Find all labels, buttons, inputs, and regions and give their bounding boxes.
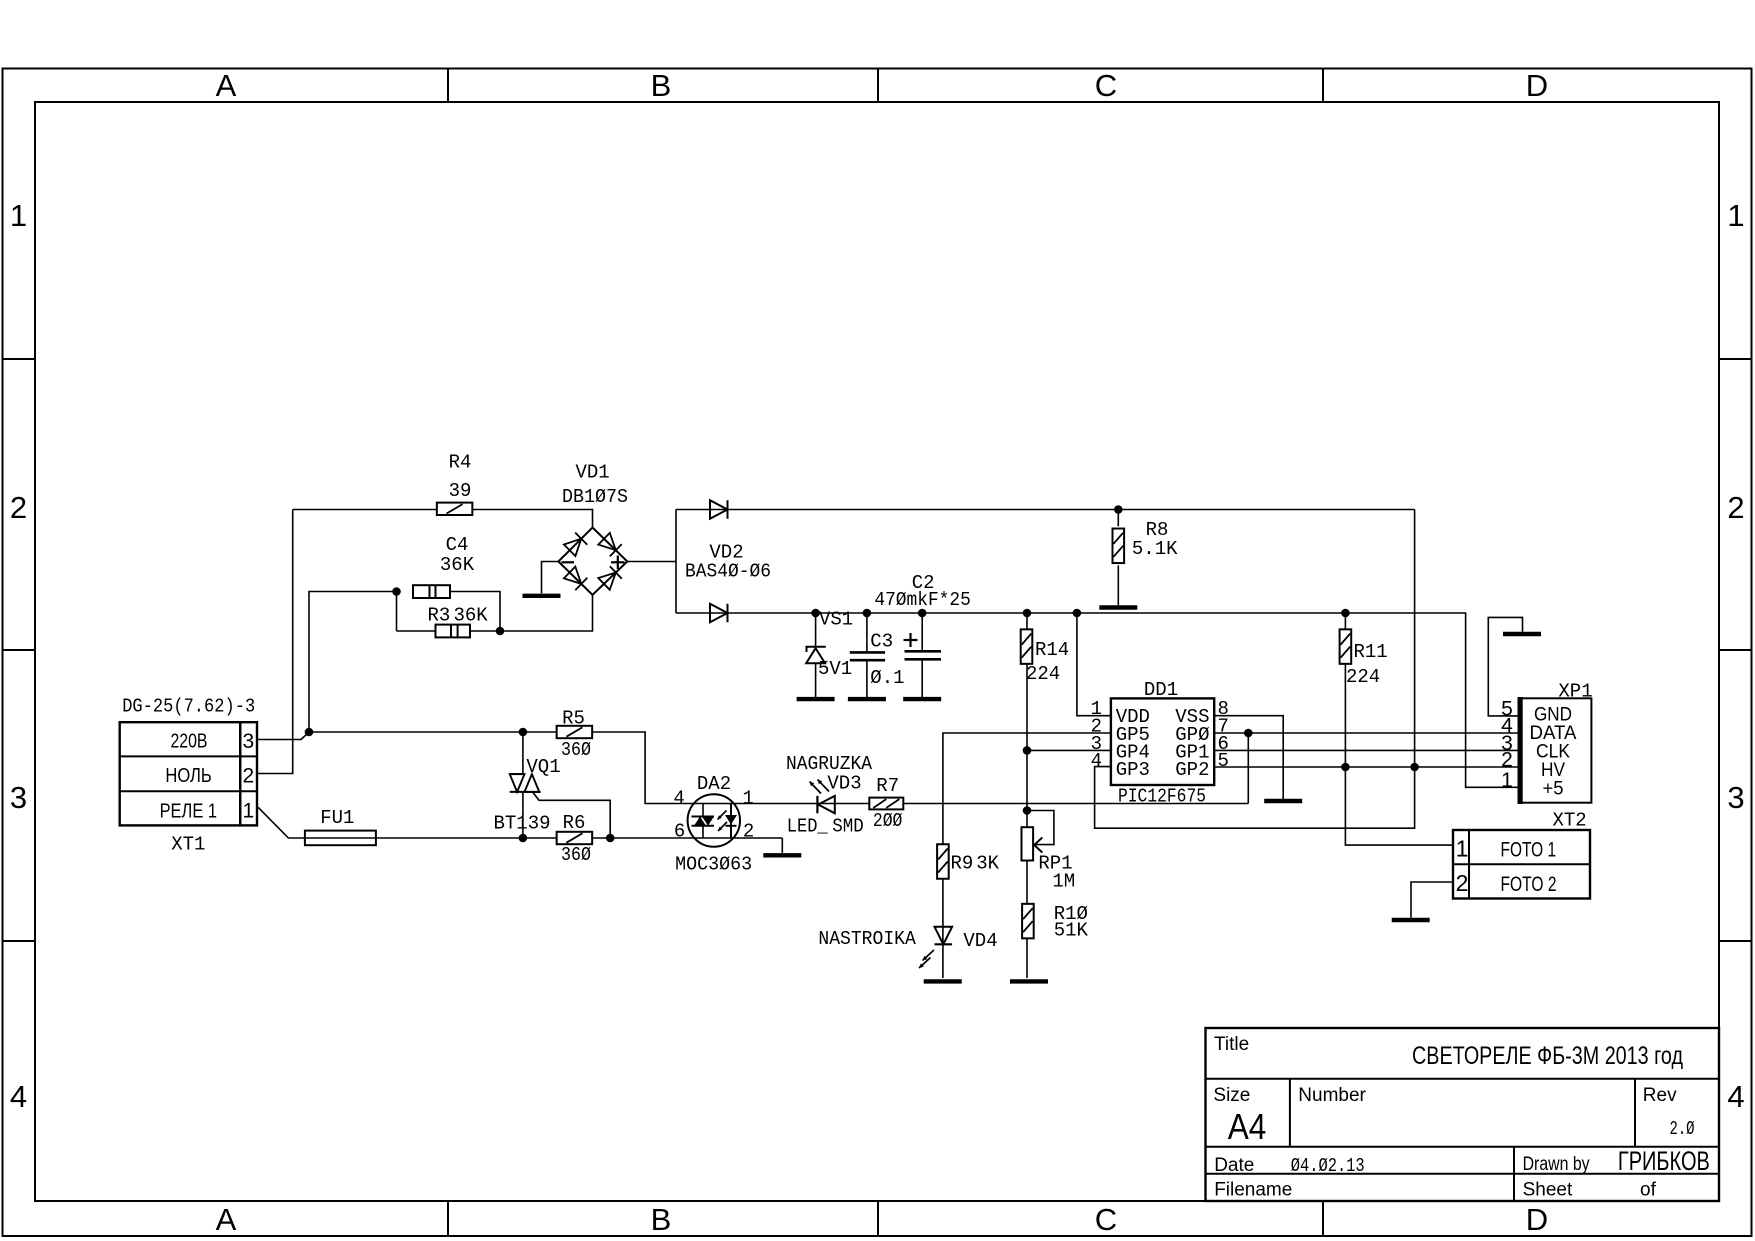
DA2 emitter bracket xyxy=(702,804,704,838)
title block row line under Date xyxy=(1206,1173,1720,1175)
wire bridge plus output to VD2 xyxy=(627,561,676,563)
optocoupler DA2 xyxy=(688,794,740,846)
svg-text:BT139: BT139 xyxy=(494,813,551,835)
svg-text:3: 3 xyxy=(10,780,27,815)
svg-text:PIC12F675: PIC12F675 xyxy=(1118,786,1206,808)
svg-text:1M: 1M xyxy=(1052,871,1075,893)
svg-text:1: 1 xyxy=(1501,769,1513,792)
ground bridge minus xyxy=(523,594,561,598)
svg-text:2: 2 xyxy=(1727,490,1744,525)
svg-text:BAS4Ø-Ø6: BAS4Ø-Ø6 xyxy=(685,561,771,583)
ground XP1 GND xyxy=(1503,632,1541,636)
svg-text:VD4: VD4 xyxy=(963,930,997,952)
potentiometer RP1 xyxy=(1022,827,1034,860)
wire C4 left leg xyxy=(396,592,398,632)
svg-text:R7: R7 xyxy=(876,775,899,797)
svg-text:C4: C4 xyxy=(446,534,469,556)
node junction HV riser/GP2 xyxy=(1410,763,1419,772)
resistor R3 (box symbol) xyxy=(436,625,471,638)
RP1 wiper arrowhead xyxy=(1034,838,1042,853)
resistor R14 xyxy=(1021,629,1033,664)
wire GP4 to R14/RP1 node xyxy=(1027,749,1111,751)
ground DA2 xyxy=(763,853,801,857)
node junction C3 on rail xyxy=(863,609,872,618)
svg-text:R6: R6 xyxy=(563,812,586,834)
svg-text:4: 4 xyxy=(673,788,684,810)
title block Size column divider xyxy=(1289,1079,1291,1147)
ground XT2 xyxy=(1392,918,1430,922)
wire НОЛЬ riser: XT1 pin2 up to R4 xyxy=(258,510,293,774)
node junction GP0/R7 xyxy=(1244,729,1253,738)
wire VS1 to ground xyxy=(815,613,817,697)
VD1 plus sign xyxy=(611,561,625,563)
svg-text:39: 39 xyxy=(449,480,472,502)
ground C3 xyxy=(848,697,886,701)
wire XP1 pin5 GND stub xyxy=(1488,617,1522,716)
DA2 light arrows xyxy=(718,811,727,820)
svg-text:LED_: LED_ xyxy=(787,816,829,838)
svg-text:36Ø: 36Ø xyxy=(561,739,591,761)
svg-text:C3: C3 xyxy=(870,631,893,653)
svg-text:of: of xyxy=(1640,1180,1657,1201)
svg-text:2: 2 xyxy=(243,764,255,787)
svg-text:36Ø: 36Ø xyxy=(561,844,591,866)
connector XP1 xyxy=(1519,698,1592,802)
wire VD2 input riser xyxy=(675,510,677,614)
svg-text:DB1Ø7S: DB1Ø7S xyxy=(562,486,628,508)
wire +5 rail: VD2 lower diode to XP1 +5 xyxy=(676,613,1519,787)
svg-text:A: A xyxy=(216,68,237,103)
diode VD2 lower xyxy=(710,604,728,623)
DA2 emitter triangles xyxy=(694,817,706,826)
svg-text:2: 2 xyxy=(1456,870,1469,896)
wire RP1 wiper bracket xyxy=(1027,811,1054,845)
node junction VDD riser on rail xyxy=(1073,609,1082,618)
wire 220В riser: XT1 pin3 to junction and up to C4/R3 xyxy=(258,592,397,740)
svg-text:R3: R3 xyxy=(428,605,451,627)
svg-text:FOTO 1: FOTO 1 xyxy=(1501,839,1557,862)
resistor R7 xyxy=(869,798,903,810)
svg-text:6: 6 xyxy=(674,821,685,843)
svg-text:НОЛЬ: НОЛЬ xyxy=(165,765,211,787)
svg-text:224: 224 xyxy=(1346,666,1380,688)
svg-text:C: C xyxy=(1095,68,1117,103)
title block outline xyxy=(1206,1028,1720,1201)
svg-text:Sheet: Sheet xyxy=(1523,1180,1573,1201)
svg-text:Rev: Rev xyxy=(1643,1085,1677,1106)
wire VD2 upper output to HV riser xyxy=(676,509,1415,511)
svg-text:3: 3 xyxy=(1727,780,1744,815)
resistor R5 xyxy=(557,726,593,738)
resistor R4 xyxy=(437,503,473,515)
svg-text:Number: Number xyxy=(1298,1085,1366,1106)
svg-text:1: 1 xyxy=(1456,836,1469,862)
svg-text:Title: Title xyxy=(1214,1034,1249,1055)
wire VSS to ground xyxy=(1214,716,1283,799)
svg-text:4: 4 xyxy=(1727,1079,1744,1114)
node junction VQ1 gate/R6 xyxy=(606,834,615,843)
ground VSS xyxy=(1264,799,1302,803)
wire GP2 HV: DD1 pin5 to XP1 pin2 xyxy=(1214,766,1518,768)
svg-text:R14: R14 xyxy=(1035,639,1069,661)
diode VD2 upper xyxy=(710,500,728,519)
svg-text:1: 1 xyxy=(243,800,255,823)
ground R10 xyxy=(1010,979,1048,983)
VD4 light arrows xyxy=(923,950,935,961)
capacitor C4 (box symbol) xyxy=(413,585,450,598)
node junction C4 left xyxy=(392,587,401,596)
VD3 light arrows xyxy=(810,782,822,794)
svg-text:VD1: VD1 xyxy=(575,461,609,483)
svg-text:36K: 36K xyxy=(454,605,489,627)
node junction R11 on rail xyxy=(1341,609,1350,618)
node junction C2 on rail xyxy=(918,609,927,618)
connector XT1 xyxy=(120,722,241,825)
triac VQ1 xyxy=(510,773,525,775)
svg-text:FOTO 2: FOTO 2 xyxy=(1501,873,1557,896)
LED VD4 xyxy=(935,927,953,945)
wire DA2 pin2 to ground xyxy=(781,838,783,853)
svg-text:B: B xyxy=(651,1202,672,1237)
fuse FU1 xyxy=(305,831,376,846)
ground VS1 xyxy=(797,697,835,701)
svg-text:5V1: 5V1 xyxy=(818,658,852,680)
title block row line under Title xyxy=(1206,1078,1720,1080)
node junction VQ1 top/R5 xyxy=(519,728,528,737)
svg-text:Ø.1: Ø.1 xyxy=(870,667,904,689)
svg-text:FU1: FU1 xyxy=(320,807,354,829)
svg-text:220В: 220В xyxy=(171,730,208,752)
VD1 diode bottom-left xyxy=(564,567,581,584)
resistor R11 xyxy=(1340,629,1352,664)
wire bridge AC bottom to R3/C4 xyxy=(397,595,593,631)
svg-text:NAGRUZKA: NAGRUZKA xyxy=(786,753,873,775)
svg-text:A4: A4 xyxy=(1228,1106,1267,1147)
wire C2 to ground xyxy=(921,613,923,697)
wire РЕЛЕ 1: XT1 pin1 via FU1 to R6/VQ1 xyxy=(258,807,557,838)
svg-text:VS1: VS1 xyxy=(819,609,853,631)
connector XT2 xyxy=(1453,830,1590,899)
node junction GP4/R14 xyxy=(1023,746,1032,755)
svg-text:MOC3Ø63: MOC3Ø63 xyxy=(675,854,752,876)
svg-text:VQ1: VQ1 xyxy=(526,756,560,778)
svg-text:2ØØ: 2ØØ xyxy=(873,810,903,832)
svg-text:2.Ø: 2.Ø xyxy=(1670,1118,1695,1140)
node junction VS1 on rail xyxy=(811,609,820,618)
svg-text:XT1: XT1 xyxy=(171,834,205,856)
node junction C4/R3 right xyxy=(496,627,505,636)
title block Drawn-by column divider xyxy=(1513,1147,1515,1201)
svg-text:Ø4.Ø2.13: Ø4.Ø2.13 xyxy=(1291,1155,1365,1177)
svg-text:224: 224 xyxy=(1026,663,1060,685)
node junction VQ1 bottom xyxy=(519,834,528,843)
wire VQ1 anode riser xyxy=(522,732,524,838)
wire bridge minus to ground xyxy=(542,562,559,594)
svg-text:D: D xyxy=(1526,1202,1548,1237)
svg-text:5: 5 xyxy=(1218,750,1229,772)
svg-text:4: 4 xyxy=(10,1079,27,1114)
wire C4 right leg xyxy=(450,592,500,632)
ground C2 xyxy=(903,697,941,701)
wire VDD riser to DD1 pin1 xyxy=(1077,613,1111,716)
wire R5 right to DA2 pin4 xyxy=(592,732,687,804)
svg-text:R9: R9 xyxy=(951,853,974,875)
node junction R8 top xyxy=(1114,505,1123,514)
svg-text:Drawn by: Drawn by xyxy=(1523,1154,1590,1175)
wire GP5 to R9 and VD4 xyxy=(943,733,1111,978)
wire DA2 pin1 through LED VD3 and R7 to GP0 riser xyxy=(688,803,1249,805)
svg-text:D: D xyxy=(1526,68,1548,103)
resistor R10 xyxy=(1022,904,1034,939)
title block row line under Size/Number/Rev xyxy=(1206,1146,1720,1148)
svg-text:SMD: SMD xyxy=(832,816,864,838)
DA2 photo-triac bar xyxy=(730,804,732,838)
wire C3 to ground xyxy=(866,613,868,697)
ground VD4 xyxy=(924,979,962,983)
wire GP1 CLK: DD1 pin6 to XP1 pin3 xyxy=(1214,749,1518,751)
node junction R14 on rail xyxy=(1023,609,1032,618)
title block Rev column divider xyxy=(1634,1079,1636,1147)
node junction 220В riser xyxy=(305,728,314,737)
svg-text:C: C xyxy=(1095,1202,1117,1237)
svg-text:XT2: XT2 xyxy=(1552,810,1586,832)
left margin row dividers xyxy=(3,358,36,360)
svg-text:A: A xyxy=(216,1202,237,1237)
svg-text:1: 1 xyxy=(10,198,27,233)
svg-text:Size: Size xyxy=(1213,1085,1250,1106)
svg-text:R11: R11 xyxy=(1354,641,1388,663)
resistor R8 xyxy=(1113,529,1125,564)
svg-text:GP3: GP3 xyxy=(1116,759,1150,781)
svg-text:NASTROIKA: NASTROIKA xyxy=(818,928,916,950)
svg-text:51K: 51K xyxy=(1054,920,1089,942)
IC DD1 PIC12F675 xyxy=(1111,698,1214,785)
wire VQ1 gate xyxy=(533,793,610,839)
VD1 diode top-left xyxy=(564,539,581,556)
svg-text:5.1K: 5.1K xyxy=(1132,538,1178,560)
svg-text:DA2: DA2 xyxy=(697,773,731,795)
wire GP0 riser xyxy=(1247,733,1249,804)
svg-text:3: 3 xyxy=(243,730,255,753)
svg-text:1: 1 xyxy=(1727,198,1744,233)
svg-text:Date: Date xyxy=(1214,1155,1254,1176)
svg-text:1: 1 xyxy=(743,788,754,810)
svg-text:2: 2 xyxy=(10,490,27,525)
zener VS1 xyxy=(807,647,826,652)
svg-text:3K: 3K xyxy=(976,853,999,875)
svg-text:VD3: VD3 xyxy=(827,773,861,795)
ground R8 xyxy=(1099,605,1137,609)
svg-text:DG-25(7.62)-3: DG-25(7.62)-3 xyxy=(122,696,255,718)
svg-text:B: B xyxy=(651,68,672,103)
node junction R11/GP2 xyxy=(1341,763,1350,772)
svg-text:XP1: XP1 xyxy=(1558,681,1592,703)
VD1 minus sign xyxy=(562,561,575,563)
node junction RP1 wiper tap xyxy=(1023,806,1032,815)
LED VD3 xyxy=(816,796,818,813)
VD1 diode bottom-right xyxy=(598,573,616,590)
svg-text:R4: R4 xyxy=(449,452,472,474)
capacitor C3 xyxy=(850,651,885,654)
svg-text:СВЕТОРЕЛЕ ФБ-3М 2013 год: СВЕТОРЕЛЕ ФБ-3М 2013 год xyxy=(1412,1042,1683,1070)
right margin row dividers xyxy=(1719,358,1752,360)
resistor R6 xyxy=(557,832,593,844)
bridge rectifier VD1 xyxy=(558,528,627,595)
VD1 diode top-right xyxy=(598,533,616,550)
wire XT2 pin2 to ground xyxy=(1411,882,1453,918)
resistor R9 xyxy=(937,844,949,879)
wire R8 to ground xyxy=(1117,510,1119,606)
svg-text:R5: R5 xyxy=(562,708,585,730)
wire R6 to DA2 pin6 xyxy=(592,837,782,839)
C2 plus sign xyxy=(904,639,918,641)
wire R4 top: left riser to bridge AC top xyxy=(293,510,593,528)
svg-text:47ØmkF*25: 47ØmkF*25 xyxy=(874,589,971,611)
capacitor C2 (electrolytic) xyxy=(905,650,942,653)
wire R11 to GP2 line and XT2 pin1 xyxy=(1345,613,1453,845)
wire GP0 DATA: DD1 pin7 to XP1 pin4 xyxy=(1214,732,1518,734)
bottom margin column dividers xyxy=(447,1201,449,1236)
wire GP3 loop from HV riser xyxy=(1095,510,1415,829)
top margin column dividers xyxy=(447,69,449,103)
svg-text:4: 4 xyxy=(1091,750,1102,772)
svg-text:ГРИБКОВ: ГРИБКОВ xyxy=(1618,1146,1710,1176)
svg-text:GP2: GP2 xyxy=(1175,759,1209,781)
svg-text:DD1: DD1 xyxy=(1144,679,1178,701)
svg-text:2: 2 xyxy=(743,821,754,843)
svg-text:РЕЛЕ 1: РЕЛЕ 1 xyxy=(160,800,217,822)
wire R14-RP1-R10 chain xyxy=(1026,613,1028,978)
svg-text:+5: +5 xyxy=(1543,778,1564,799)
svg-text:36K: 36K xyxy=(440,554,475,576)
wire 220В to VQ1/R5 xyxy=(309,731,557,733)
svg-text:Filename: Filename xyxy=(1214,1180,1292,1201)
